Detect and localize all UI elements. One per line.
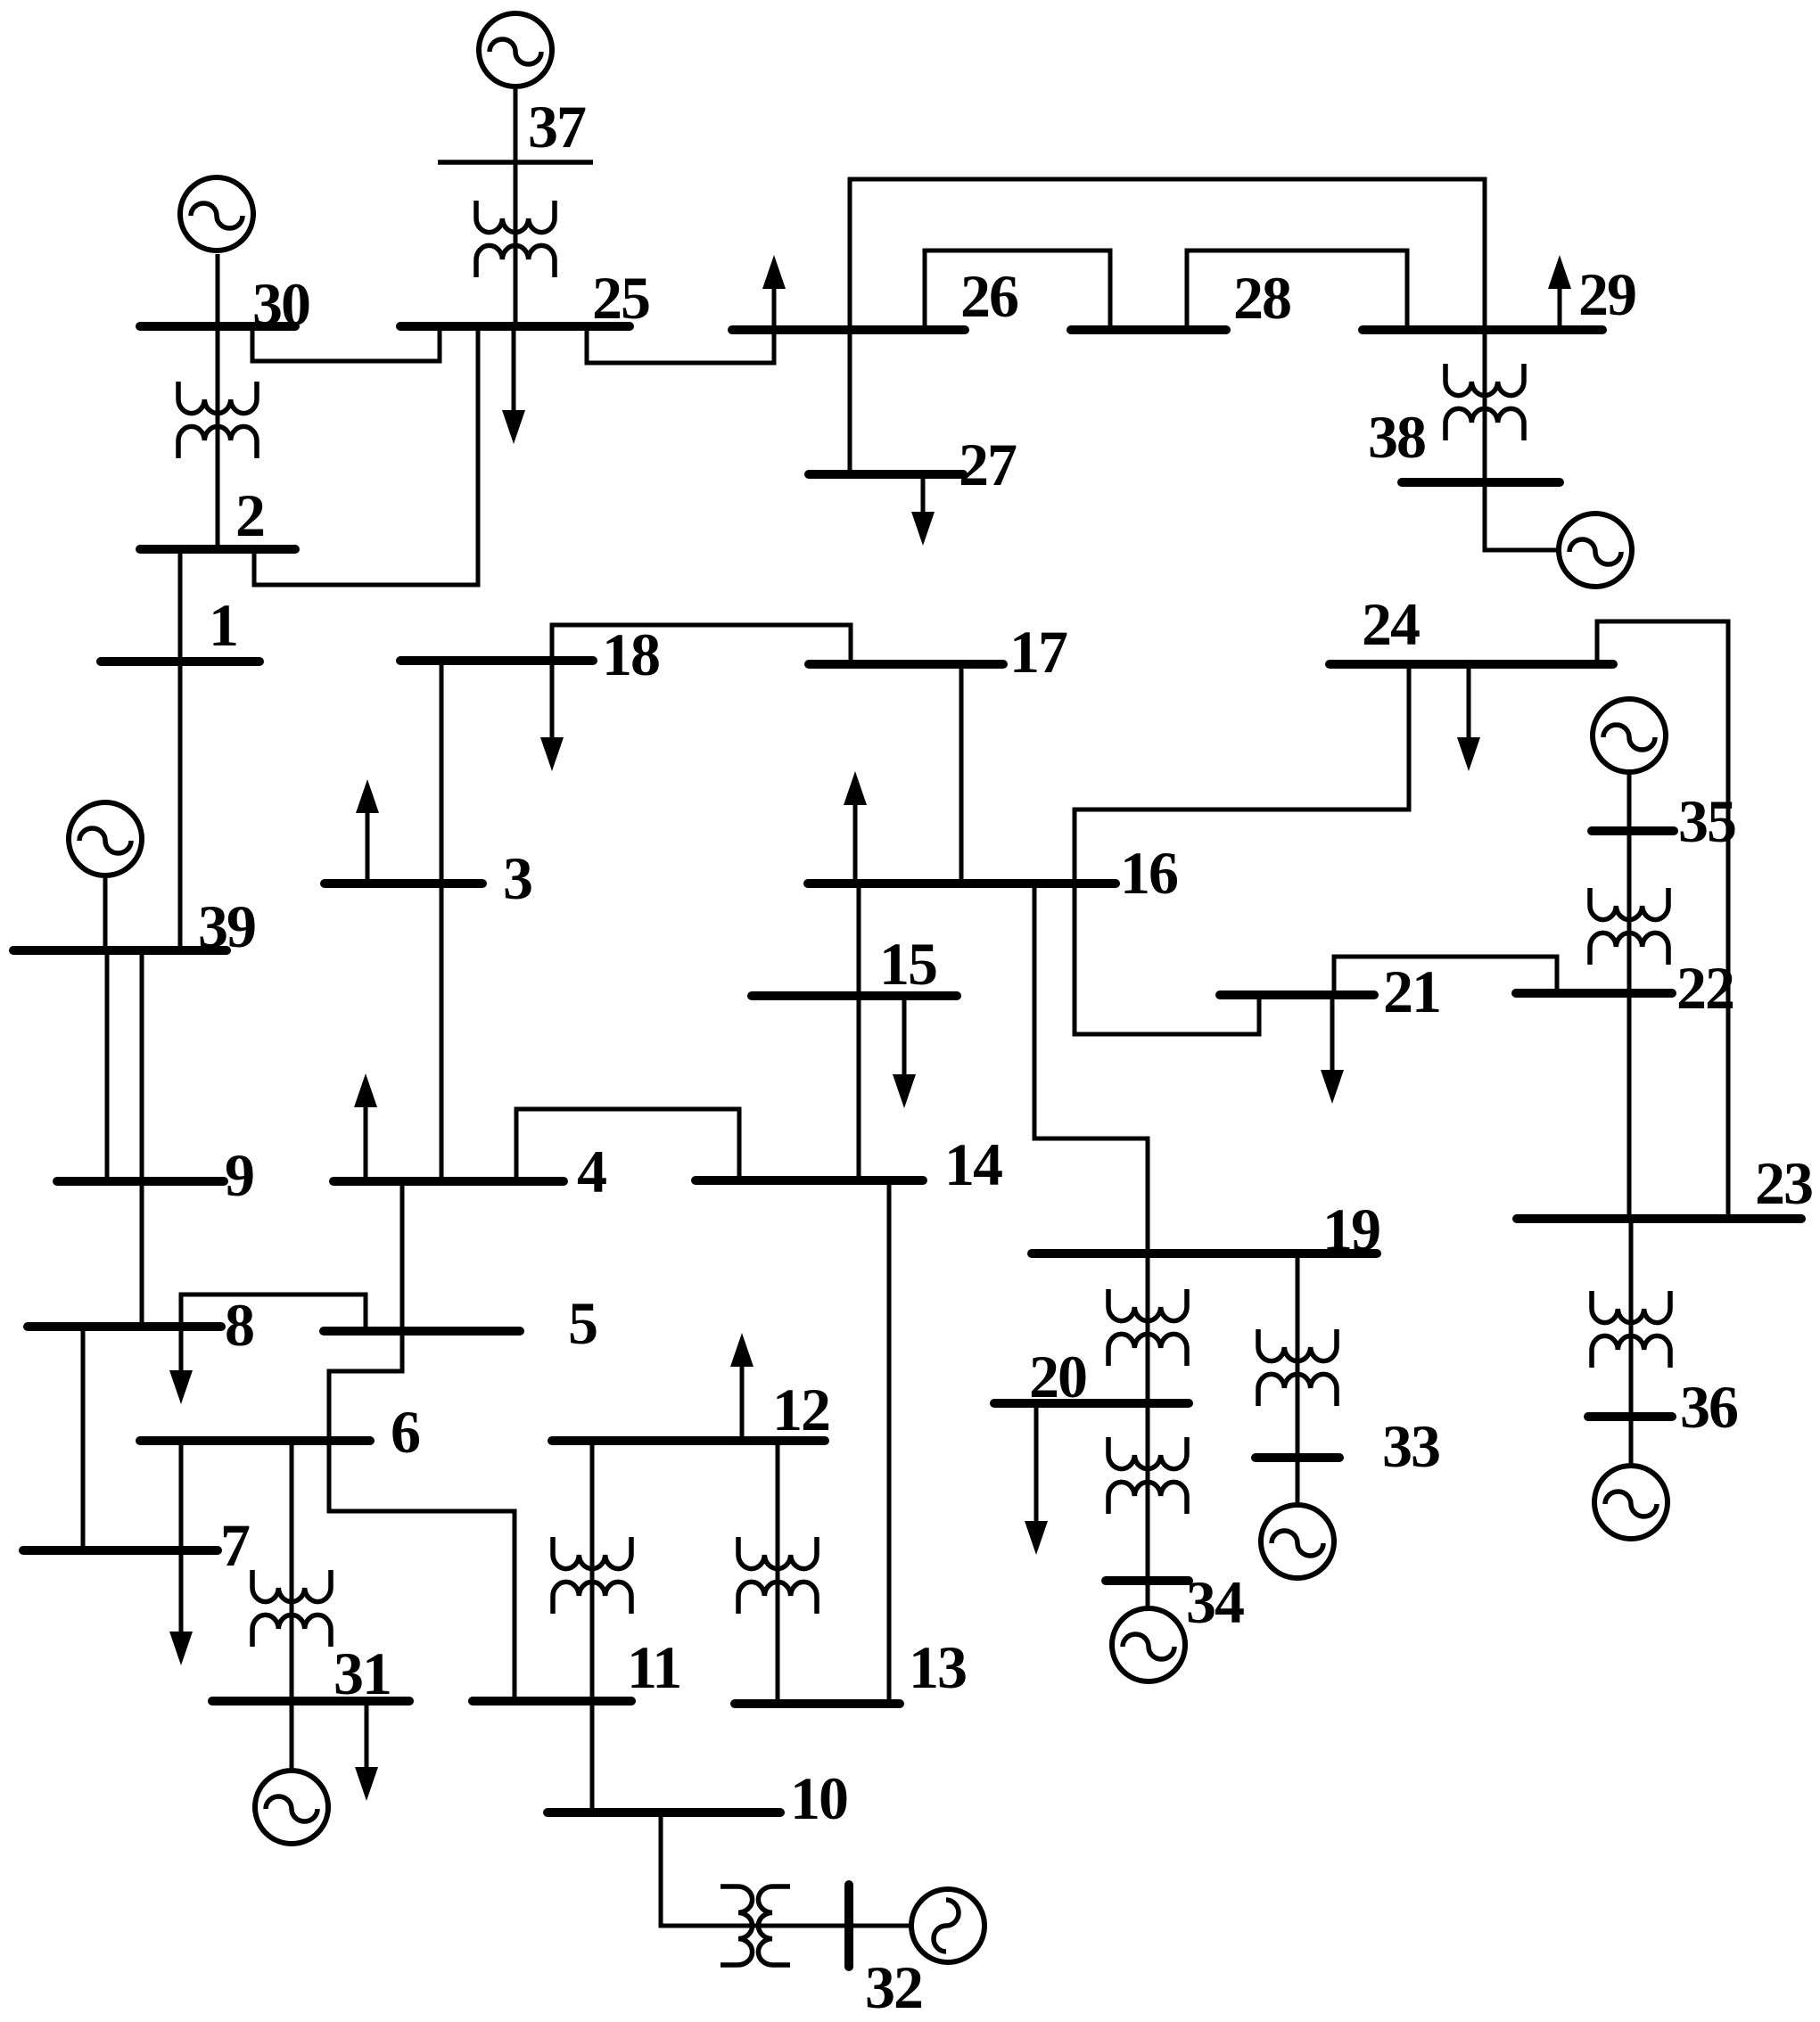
load arrow bus 12 <box>740 1361 745 1436</box>
bus 5 bar <box>324 1327 520 1336</box>
bus 28 bar <box>1071 325 1226 334</box>
transformer T30-2 winding 2 <box>178 426 257 458</box>
transformer T37-25 winding 1 <box>476 201 555 233</box>
transformer T37-25 winding 2 <box>476 245 555 277</box>
svg-text:4: 4 <box>577 1138 606 1205</box>
bus 4 bar <box>334 1177 564 1186</box>
svg-text:12: 12 <box>772 1376 829 1443</box>
bus 23 bar <box>1517 1214 1801 1223</box>
load arrow bus 31 <box>365 1705 369 1772</box>
generator G36 circle <box>1594 1466 1668 1539</box>
svg-text:11: 11 <box>627 1633 680 1701</box>
bus 36 bar <box>1588 1412 1672 1421</box>
generator G30 circle <box>180 177 253 251</box>
transformer T19-33 winding 1 <box>1258 1329 1337 1361</box>
svg-text:25: 25 <box>592 264 649 332</box>
wire transformer 19-20-34 link / generator G34 lead <box>1146 1253 1150 1607</box>
wire line 6-11 <box>329 1441 515 1701</box>
generator G38 sine <box>1569 539 1621 564</box>
svg-text:7: 7 <box>220 1511 250 1579</box>
wire line 28-29 bracket <box>1187 251 1407 330</box>
transformer T19-20 winding 1 <box>1108 1289 1187 1321</box>
bus 10 bar <box>548 1808 780 1817</box>
bus 33 bar <box>1256 1453 1339 1462</box>
wire line 10-32 / transformer 10-32 link / generator G32 lead <box>661 1812 910 1926</box>
bus 18 bar <box>400 656 593 665</box>
bus 19 bar <box>1032 1249 1377 1258</box>
bus 20 bar <box>994 1399 1189 1408</box>
wire line 4-5 <box>400 1181 405 1331</box>
generator G31 sine <box>266 1796 317 1821</box>
wire line 8-5 bracket <box>181 1295 366 1331</box>
wire generator G37 lead <box>514 89 518 326</box>
transformer T6-31 winding 1 <box>252 1570 331 1602</box>
transformer T20-34 winding 1 <box>1108 1437 1187 1469</box>
generator G33 circle <box>1261 1505 1334 1578</box>
bus 37 bar <box>438 160 593 165</box>
load arrow bus 21 <box>1330 999 1335 1075</box>
bus 1 bar <box>101 657 259 666</box>
svg-text:28: 28 <box>1233 264 1290 332</box>
svg-text:22: 22 <box>1676 954 1734 1022</box>
wire line 24-23 loop <box>1597 621 1728 1219</box>
generator G33 sine <box>1272 1531 1323 1556</box>
wire line 1-2 <box>178 549 183 662</box>
wire line 16-15-14 <box>857 884 861 1180</box>
wire line 25-26 <box>587 326 774 363</box>
bus 7 bar <box>23 1546 218 1555</box>
transformer T29-38 winding 1 <box>1445 364 1524 396</box>
wire line 16-24 <box>1075 664 1409 884</box>
load arrow bus 16 <box>853 800 858 879</box>
wire transformer 12-13 link <box>776 1441 780 1704</box>
generator G39 sine <box>79 828 131 853</box>
svg-text:32: 32 <box>865 1953 922 2021</box>
load arrow bus 18 <box>550 665 555 743</box>
svg-text:18: 18 <box>602 621 659 688</box>
generator G34 circle <box>1112 1608 1185 1681</box>
svg-text:5: 5 <box>568 1289 597 1357</box>
svg-text:14: 14 <box>944 1130 1002 1198</box>
transformer T19-20 winding 2 <box>1108 1334 1187 1366</box>
transformer T23-36 winding 1 <box>1592 1291 1670 1323</box>
generator G37 sine <box>490 39 541 64</box>
wire generator G30 lead / transformer 30-2 link <box>216 254 220 549</box>
wire line 39-9 circuit a <box>105 950 110 1181</box>
transformer T30-2 winding 1 <box>178 382 257 414</box>
transformer T12-11 winding 2 <box>553 1582 631 1614</box>
bus 30 bar <box>140 322 295 331</box>
wire line 30-25 <box>252 326 440 361</box>
bus 27 bar <box>809 470 963 479</box>
generator G35 circle <box>1593 699 1666 772</box>
bus 21 bar <box>1220 990 1374 999</box>
svg-text:34: 34 <box>1186 1568 1244 1636</box>
wire line 11-10 <box>590 1701 595 1812</box>
svg-text:16: 16 <box>1120 839 1178 907</box>
svg-text:20: 20 <box>1029 1343 1086 1410</box>
wire generator G35 lead / line 22-23 <box>1627 774 1632 1219</box>
bus 26 bar <box>732 325 965 334</box>
bus 17 bar <box>809 660 1003 669</box>
svg-text:15: 15 <box>879 930 936 998</box>
bus 16 bar <box>808 879 1116 888</box>
bus 29 bar <box>1363 325 1602 334</box>
bus 34 bar <box>1106 1576 1189 1585</box>
svg-text:13: 13 <box>909 1633 966 1701</box>
bus 12 bar <box>552 1436 825 1445</box>
transformer T35-22 winding 1 <box>1590 888 1668 920</box>
bus 9 bar <box>57 1177 224 1186</box>
svg-text:19: 19 <box>1322 1196 1379 1263</box>
wire line 4-14 bracket <box>516 1109 739 1181</box>
wire line 17-16 <box>959 664 964 884</box>
wire line 26-27 <box>848 330 852 472</box>
svg-text:30: 30 <box>252 270 309 338</box>
bus 38 bar <box>1402 478 1560 487</box>
bus 24 bar <box>1330 660 1613 669</box>
bus 14 bar <box>696 1176 923 1185</box>
transformer T6-31 winding 2 <box>252 1615 331 1647</box>
transformer T10-32 winding 1 <box>721 1886 753 1965</box>
wire line 21-22 bracket <box>1334 957 1557 995</box>
bus 31 bar <box>212 1697 409 1706</box>
load arrow bus 26 <box>772 284 777 325</box>
line 6-7 with load arrow bus 7 <box>179 1441 184 1637</box>
bus 15 bar <box>752 991 957 1000</box>
svg-text:39: 39 <box>198 892 255 960</box>
svg-text:33: 33 <box>1382 1412 1439 1480</box>
transformer T19-33 winding 2 <box>1258 1374 1337 1406</box>
bus 13 bar <box>735 1699 900 1708</box>
generator G31 circle <box>255 1771 328 1844</box>
generator G32 sine <box>934 1900 959 1952</box>
svg-text:38: 38 <box>1368 403 1425 471</box>
svg-text:27: 27 <box>959 431 1017 498</box>
load arrow bus 20 <box>1034 1408 1039 1526</box>
svg-text:35: 35 <box>1678 787 1735 855</box>
bus 6 bar <box>140 1436 370 1445</box>
transformer T12-13 winding 1 <box>738 1537 817 1569</box>
bus 8 bar <box>28 1322 221 1331</box>
svg-text:23: 23 <box>1755 1149 1812 1217</box>
transformer T10-32 winding 2 <box>758 1886 790 1965</box>
generator G38 circle <box>1559 514 1632 587</box>
svg-text:1: 1 <box>209 591 237 659</box>
wire line 14-13 <box>887 1180 892 1704</box>
generator G30 sine <box>191 203 243 228</box>
bus 22 bar <box>1516 989 1672 998</box>
bus 35 bar <box>1592 826 1674 835</box>
load arrow bus 29 <box>1558 284 1562 325</box>
load arrow bus 4 <box>364 1102 368 1177</box>
wire line 2-25 <box>254 326 478 585</box>
wire line 8-7 <box>81 1327 86 1550</box>
wire transformer 19-33 link / generator G33 lead <box>1296 1253 1300 1503</box>
bus 11 bar <box>473 1697 631 1706</box>
transformer T20-34 winding 2 <box>1108 1482 1187 1514</box>
wire line 1-39 <box>178 662 183 950</box>
generator G32 circle <box>911 1889 984 1962</box>
svg-text:6: 6 <box>391 1398 420 1466</box>
svg-text:31: 31 <box>334 1640 391 1707</box>
wire transformer 6-31 link / generator G31 lead <box>290 1441 294 1769</box>
generator G34 sine <box>1123 1634 1174 1659</box>
load arrow bus 24 <box>1467 669 1471 743</box>
wire line 16-19 <box>1034 884 1148 1253</box>
transformer T12-11 winding 1 <box>553 1537 631 1569</box>
svg-text:3: 3 <box>503 844 531 912</box>
load arrow bus 3 <box>366 808 370 879</box>
transformer T12-13 winding 2 <box>738 1582 817 1614</box>
generator G35 sine <box>1603 725 1655 750</box>
transformer T35-22 winding 2 <box>1590 933 1668 965</box>
wire line 5-6 <box>329 1331 402 1441</box>
bus 3 bar <box>325 879 482 888</box>
wire line 18-3-4 <box>440 661 444 1181</box>
svg-text:2: 2 <box>235 481 264 549</box>
wire line 18-17 bracket <box>552 625 851 664</box>
bus 39 bar <box>13 946 226 955</box>
load arrow bus 15 <box>902 1000 907 1080</box>
bus 32 bar <box>844 1885 853 1967</box>
bus 25 bar <box>400 322 630 331</box>
svg-text:24: 24 <box>1362 590 1420 658</box>
bus 2 bar <box>140 545 295 554</box>
svg-text:10: 10 <box>790 1764 847 1832</box>
transformer T29-38 winding 2 <box>1445 408 1524 440</box>
load arrow bus 25 <box>512 331 516 415</box>
svg-text:17: 17 <box>1009 618 1067 686</box>
load arrow bus 27 <box>921 479 926 517</box>
wire line 39-9 circuit b / line 9-8 <box>140 950 144 1327</box>
generator G36 sine <box>1605 1492 1657 1516</box>
load arrow bus 8 <box>179 1330 184 1376</box>
svg-text:26: 26 <box>960 262 1018 330</box>
wire transformer 12-11 link <box>590 1441 595 1701</box>
svg-text:9: 9 <box>225 1141 253 1209</box>
wire line 26-28 bracket <box>925 251 1110 330</box>
generator G37 circle <box>479 13 552 86</box>
svg-text:8: 8 <box>225 1291 253 1359</box>
wire generator G39 lead <box>103 878 108 950</box>
wire transformer 23-36 link / generator G36 lead <box>1629 1219 1634 1464</box>
transformer T23-36 winding 2 <box>1592 1336 1670 1368</box>
svg-text:37: 37 <box>528 93 586 160</box>
svg-text:29: 29 <box>1578 260 1635 328</box>
generator G39 circle <box>69 802 142 875</box>
svg-text:21: 21 <box>1383 958 1440 1025</box>
wire line 26-29 top loop <box>850 179 1485 330</box>
wire transformer 29-38 link <box>1485 330 1558 550</box>
wire line 16-21 <box>1075 884 1259 1034</box>
svg-text:36: 36 <box>1680 1373 1738 1441</box>
